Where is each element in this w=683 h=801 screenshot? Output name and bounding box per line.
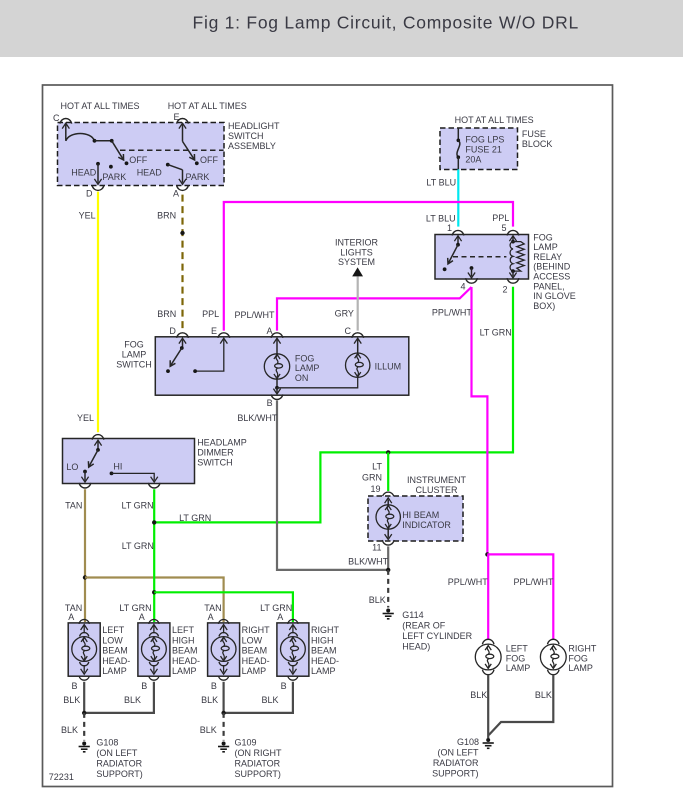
svg-text:D: D xyxy=(169,326,176,336)
fuse block box xyxy=(440,128,518,170)
svg-text:HEAD-: HEAD- xyxy=(242,656,270,666)
fog lamp on indicator bulb xyxy=(276,340,278,354)
svg-text:ACCESS: ACCESS xyxy=(533,272,570,282)
svg-text:LT GRN: LT GRN xyxy=(122,541,154,551)
svg-text:C: C xyxy=(345,326,352,336)
svg-text:FOG LPS: FOG LPS xyxy=(465,135,504,145)
svg-text:BLK: BLK xyxy=(262,695,279,705)
pin A connector xyxy=(177,185,189,190)
svg-text:72231: 72231 xyxy=(49,772,74,782)
ground G108 (on left radiator support, fog lamps) xyxy=(486,738,490,742)
wire BLK/WHT from fog switch B to G114 junction xyxy=(277,401,388,570)
svg-text:BRN: BRN xyxy=(157,211,176,221)
title bar xyxy=(0,0,683,57)
relay pin 4 contact xyxy=(470,266,474,270)
svg-text:BEAM: BEAM xyxy=(172,646,198,656)
svg-text:HIGH: HIGH xyxy=(311,635,334,645)
wire LT GRN from dimmer HI down to headlamps xyxy=(153,489,155,622)
svg-text:(REAR OF: (REAR OF xyxy=(402,621,446,631)
svg-text:ON: ON xyxy=(295,373,309,383)
dimmer HI output connector xyxy=(148,483,160,488)
svg-text:RADIATOR: RADIATOR xyxy=(433,758,479,768)
svg-text:HEAD-: HEAD- xyxy=(311,656,339,666)
svg-text:PPL/WHT: PPL/WHT xyxy=(448,577,489,587)
svg-text:A: A xyxy=(208,612,214,622)
svg-text:YEL: YEL xyxy=(77,413,94,423)
svg-text:BLK: BLK xyxy=(61,725,78,735)
svg-text:RADIATOR: RADIATOR xyxy=(96,759,142,769)
ground G108 (left radiator support) xyxy=(82,742,86,746)
svg-text:PPL/WHT: PPL/WHT xyxy=(514,577,555,587)
svg-text:HEAD: HEAD xyxy=(71,167,97,177)
dimmer switch pole xyxy=(97,442,99,450)
svg-text:INSTRUMENT: INSTRUMENT xyxy=(407,475,466,485)
svg-text:CLUSTER: CLUSTER xyxy=(415,485,458,495)
svg-text:GRY: GRY xyxy=(335,309,354,319)
LT GRN junction at instrument cluster branch xyxy=(386,450,390,454)
svg-text:LAMP: LAMP xyxy=(568,663,593,673)
svg-text:TAN: TAN xyxy=(65,501,82,511)
svg-text:HEAD: HEAD xyxy=(137,167,163,177)
svg-text:ILLUM: ILLUM xyxy=(375,362,402,372)
wire BLK from left low beam B xyxy=(83,682,85,713)
svg-text:2: 2 xyxy=(503,285,508,295)
pole D output xyxy=(96,162,100,166)
mechanical link dashed line xyxy=(120,149,224,151)
svg-text:LAMP: LAMP xyxy=(506,663,531,673)
svg-text:HEADLIGHT: HEADLIGHT xyxy=(228,121,280,131)
svg-text:G108: G108 xyxy=(457,737,479,747)
svg-text:A: A xyxy=(173,189,179,199)
svg-text:IN GLOVE: IN GLOVE xyxy=(533,291,576,301)
svg-text:BLK: BLK xyxy=(470,690,487,700)
wire BLK from left fog lamp to G108 xyxy=(487,675,489,738)
pole A output xyxy=(166,163,170,167)
svg-text:RIGHT: RIGHT xyxy=(568,644,597,654)
svg-text:SWITCH: SWITCH xyxy=(228,131,264,141)
svg-text:PPL: PPL xyxy=(492,213,509,223)
svg-text:BLK/WHT: BLK/WHT xyxy=(348,557,389,567)
wire LT GRN branch to right high beam headlamp xyxy=(154,592,293,622)
svg-text:B: B xyxy=(211,681,217,691)
svg-text:YEL: YEL xyxy=(79,211,96,221)
svg-text:BLK: BLK xyxy=(124,695,141,705)
svg-text:FOG: FOG xyxy=(568,653,588,663)
wire PPL/WHT from fog lamp switch A to relay pin 4 xyxy=(277,287,472,331)
wire BLK dashed to ground G109 xyxy=(223,713,225,741)
svg-text:LT BLU: LT BLU xyxy=(426,178,456,188)
svg-text:(ON LEFT: (ON LEFT xyxy=(96,748,138,758)
svg-text:SWITCH: SWITCH xyxy=(197,458,233,468)
svg-text:GRN: GRN xyxy=(362,473,382,483)
svg-text:C: C xyxy=(53,113,60,123)
svg-text:HEADLAMP: HEADLAMP xyxy=(197,438,247,448)
svg-text:LT GRN: LT GRN xyxy=(480,328,512,338)
diagram outer border frame xyxy=(43,85,613,787)
wire PPL/WHT from relay pin 4 down to fog lamps xyxy=(472,287,488,554)
svg-text:LAMP: LAMP xyxy=(172,666,197,676)
ground G109 (right radiator support) xyxy=(222,742,226,746)
svg-text:FOG: FOG xyxy=(506,653,526,663)
ground G114 xyxy=(386,609,390,613)
svg-text:HEAD-: HEAD- xyxy=(102,656,130,666)
svg-text:BEAM: BEAM xyxy=(242,646,268,656)
svg-text:BLK: BLK xyxy=(63,695,80,705)
svg-text:LOW: LOW xyxy=(102,635,123,645)
svg-text:LT: LT xyxy=(372,462,382,472)
svg-text:A: A xyxy=(68,612,74,622)
fog switch pin B connector xyxy=(271,394,283,399)
PPL/WHT junction to both fog lamps xyxy=(485,552,489,556)
svg-text:RIGHT: RIGHT xyxy=(311,625,340,635)
svg-text:LAMP: LAMP xyxy=(122,350,147,360)
svg-text:11: 11 xyxy=(372,542,381,552)
wire BLK from left high beam B xyxy=(84,682,154,713)
svg-text:HOT AT ALL TIMES: HOT AT ALL TIMES xyxy=(455,115,534,125)
wire BLK from right fog lamp xyxy=(489,675,554,735)
pin D connector xyxy=(92,185,104,190)
fog lamp switch box xyxy=(155,337,408,395)
wire LT GRN from relay pin 2 to junction and HI circuit xyxy=(154,287,513,523)
svg-text:D: D xyxy=(86,189,93,199)
svg-text:(ON LEFT: (ON LEFT xyxy=(437,747,479,757)
cluster pin 19 connector xyxy=(382,492,394,497)
junction left BLK xyxy=(82,711,86,715)
svg-text:LAMP: LAMP xyxy=(533,242,558,252)
headlight switch pole C (head/off/park) xyxy=(65,125,67,141)
svg-text:20A: 20A xyxy=(465,155,481,165)
svg-text:B: B xyxy=(72,681,78,691)
svg-text:E: E xyxy=(211,326,217,336)
cluster pin 11 connector xyxy=(382,540,394,545)
svg-text:RADIATOR: RADIATOR xyxy=(235,759,281,769)
left fog lamp xyxy=(482,639,494,644)
hi beam indicator bulb xyxy=(387,500,389,506)
svg-text:BLK: BLK xyxy=(201,695,218,705)
illumination bulb ILLUM xyxy=(277,378,358,388)
svg-text:BLK: BLK xyxy=(535,690,552,700)
wire LT GRN branch down to instrument cluster pin 19 xyxy=(387,452,389,491)
svg-text:19: 19 xyxy=(370,484,380,494)
svg-text:BLK/WHT: BLK/WHT xyxy=(237,413,278,423)
wire BRN dashed from headlight switch A to fog lamp switch D xyxy=(181,192,183,331)
svg-text:INTERIOR: INTERIOR xyxy=(335,237,379,247)
svg-text:LEFT CYLINDER: LEFT CYLINDER xyxy=(402,631,472,641)
wire PPL from fog lamp switch E to relay pin 5 xyxy=(224,202,513,331)
svg-text:SYSTEM: SYSTEM xyxy=(338,257,375,267)
svg-text:FUSE: FUSE xyxy=(522,129,546,139)
svg-text:A: A xyxy=(267,326,273,336)
left low beam headlamp xyxy=(68,623,100,676)
svg-text:SUPPORT): SUPPORT) xyxy=(235,769,281,779)
svg-text:LAMP: LAMP xyxy=(102,666,127,676)
svg-text:LT GRN: LT GRN xyxy=(260,603,292,613)
fog lamp relay box xyxy=(435,235,529,280)
svg-text:PPL/WHT: PPL/WHT xyxy=(235,310,276,320)
svg-text:RELAY: RELAY xyxy=(533,252,562,262)
svg-text:HI: HI xyxy=(113,462,122,472)
svg-text:FOG: FOG xyxy=(124,340,144,350)
svg-text:SUPPORT): SUPPORT) xyxy=(96,769,142,779)
svg-text:BOX): BOX) xyxy=(533,301,555,311)
svg-text:HEAD-: HEAD- xyxy=(172,656,200,666)
svg-text:BLOCK: BLOCK xyxy=(522,139,553,149)
fog switch pole from pin D xyxy=(182,340,184,349)
svg-text:B: B xyxy=(281,681,287,691)
relay dashed actuation link xyxy=(453,256,506,258)
headlight switch pole E (head/off/park) xyxy=(182,125,184,142)
svg-text:Fig 1: Fog Lamp Circuit, Compo: Fig 1: Fog Lamp Circuit, Composite W/O D… xyxy=(193,13,579,33)
svg-text:LOW: LOW xyxy=(242,635,263,645)
svg-text:OFF: OFF xyxy=(200,155,218,165)
svg-text:OFF: OFF xyxy=(129,155,147,165)
svg-text:LEFT: LEFT xyxy=(102,625,125,635)
svg-text:LT GRN: LT GRN xyxy=(179,513,211,523)
right high beam headlamp xyxy=(277,623,309,676)
junction on BRN wire xyxy=(180,231,184,235)
svg-text:LT BLU: LT BLU xyxy=(426,214,456,224)
wire BLK dashed to ground G108 xyxy=(83,713,85,741)
svg-text:SUPPORT): SUPPORT) xyxy=(432,768,478,778)
svg-text:PPL/WHT: PPL/WHT xyxy=(432,308,473,318)
svg-text:(BEHIND: (BEHIND xyxy=(533,262,571,272)
LT GRN junction to relay circuit xyxy=(152,520,156,524)
wire YEL from headlight switch D to dimmer switch xyxy=(97,192,99,433)
svg-text:DIMMER: DIMMER xyxy=(197,448,234,458)
svg-text:BRN: BRN xyxy=(157,309,176,319)
relay coil between pin 5 and pin 2 xyxy=(512,237,514,242)
wire BLK dashed to ground G114 xyxy=(387,570,389,608)
svg-text:BEAM: BEAM xyxy=(311,646,337,656)
svg-text:LAMP: LAMP xyxy=(295,363,320,373)
svg-text:B: B xyxy=(267,398,273,408)
svg-text:LT GRN: LT GRN xyxy=(119,603,151,613)
svg-text:A: A xyxy=(139,612,145,622)
svg-text:(ON RIGHT: (ON RIGHT xyxy=(235,748,282,758)
svg-text:4: 4 xyxy=(461,282,466,292)
svg-text:ASSEMBLY: ASSEMBLY xyxy=(228,141,276,151)
relay switch contact from pin 1 xyxy=(457,237,459,245)
relay pin 2 connector xyxy=(507,278,519,283)
svg-text:HOT AT ALL TIMES: HOT AT ALL TIMES xyxy=(61,101,140,111)
left high beam headlamp xyxy=(138,623,170,676)
relay pin 4 connector xyxy=(466,278,478,283)
svg-text:LT GRN: LT GRN xyxy=(122,501,154,511)
svg-text:PARK: PARK xyxy=(186,172,210,182)
svg-text:LAMP: LAMP xyxy=(242,666,267,676)
junction right BLK xyxy=(221,711,225,715)
wire TAN branch to right low beam headlamp xyxy=(85,578,224,623)
svg-text:A: A xyxy=(277,612,283,622)
svg-text:LO: LO xyxy=(66,462,78,472)
svg-text:FOG: FOG xyxy=(533,232,553,242)
svg-text:PANEL,: PANEL, xyxy=(533,281,564,291)
wire BLK from right high beam B xyxy=(224,682,293,713)
svg-text:RIGHT: RIGHT xyxy=(242,625,271,635)
svg-text:HIGH: HIGH xyxy=(172,635,195,645)
svg-text:HEAD): HEAD) xyxy=(402,642,430,652)
svg-text:BLK: BLK xyxy=(200,725,217,735)
svg-text:BEAM: BEAM xyxy=(102,646,128,656)
svg-text:LEFT: LEFT xyxy=(172,625,195,635)
svg-text:LAMP: LAMP xyxy=(311,666,336,676)
svg-text:G109: G109 xyxy=(235,738,257,748)
svg-text:SWITCH: SWITCH xyxy=(116,360,152,370)
off-page arrow to interior lights system xyxy=(352,267,363,276)
headlight switch assembly box xyxy=(58,123,225,186)
svg-text:G108: G108 xyxy=(96,738,118,748)
fog switch contact from pin E xyxy=(195,340,224,372)
svg-text:HI BEAM: HI BEAM xyxy=(402,510,439,520)
svg-text:G114: G114 xyxy=(402,610,423,620)
wire LT BLU from fuse to relay pin 1 xyxy=(457,170,459,227)
wire GRY from fog lamp switch C to interior lights system xyxy=(357,276,359,330)
svg-text:HOT AT ALL TIMES: HOT AT ALL TIMES xyxy=(168,101,247,111)
junction at bulb bottom xyxy=(275,386,279,390)
wire BLK from right low beam B xyxy=(223,682,225,713)
svg-text:FUSE 21: FUSE 21 xyxy=(465,145,502,155)
headlamp dimmer switch box xyxy=(63,439,195,484)
dimmer LO output connector xyxy=(79,483,91,488)
svg-text:LEFT: LEFT xyxy=(506,644,529,654)
right low beam headlamp xyxy=(208,623,240,676)
junction at G114 branch xyxy=(386,568,390,572)
dimmer input connector xyxy=(92,435,104,440)
svg-text:PPL: PPL xyxy=(202,309,219,319)
wire BLK/WHT from cluster pin 11 xyxy=(387,546,389,570)
svg-text:BLK: BLK xyxy=(369,595,386,605)
svg-text:1: 1 xyxy=(447,223,452,233)
svg-text:LIGHTS: LIGHTS xyxy=(340,248,373,258)
contact PARK dot (left) xyxy=(109,165,113,169)
svg-text:FOG: FOG xyxy=(295,353,315,363)
svg-text:5: 5 xyxy=(502,223,507,233)
TAN junction xyxy=(83,575,87,579)
svg-text:INDICATOR: INDICATOR xyxy=(402,520,451,530)
LT GRN junction to right high beam xyxy=(152,590,156,594)
wire TAN from dimmer LO to left low beam headlamp xyxy=(84,489,86,622)
svg-text:B: B xyxy=(141,681,147,691)
svg-text:PARK: PARK xyxy=(102,172,126,182)
right fog lamp xyxy=(548,639,560,644)
